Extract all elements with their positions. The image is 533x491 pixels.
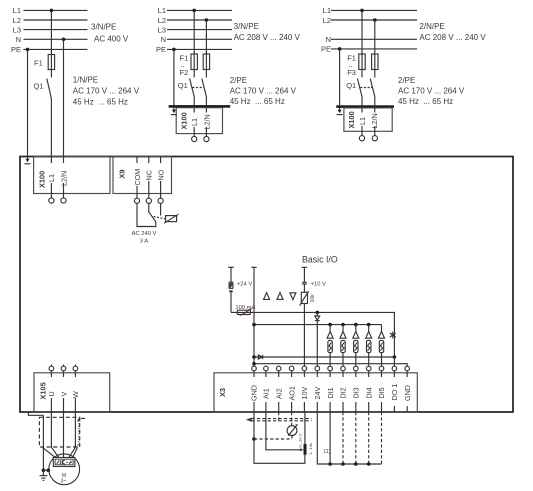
terminal circle X100 main L2/N: [61, 198, 66, 203]
wire L1 to fuse F1: [50, 10, 52, 54]
svg-text:1/N/PE: 1/N/PE: [73, 76, 98, 85]
wire +10V to pot symbol: [303, 284, 305, 292]
junction line A at 24V diode: [316, 311, 320, 315]
wire F1 to Q1 mid: [193, 70, 195, 78]
wire F2 to Q1 mid: [205, 70, 207, 78]
wire PE rail left: [24, 48, 88, 50]
wire L3 rail left: [24, 29, 88, 31]
wire line D GND2 bus: [254, 364, 407, 367]
wire NC down: [148, 203, 150, 211]
wire NO down: [160, 203, 162, 215]
footnote asterisk DI5: [390, 332, 396, 339]
terminal circle NC: [146, 198, 151, 203]
svg-text:DI1: DI1: [326, 387, 335, 398]
shield ground dotted link: [75, 422, 79, 446]
X3 pin stubs inside upper: [254, 373, 407, 377]
wire PE down to chassis: [27, 49, 29, 159]
svg-text:X100: X100: [38, 171, 47, 188]
cable gland cone right: [73, 447, 78, 457]
wire DI1 down: [329, 412, 331, 464]
svg-text:X100: X100: [347, 111, 356, 128]
wire line C DO1 return: [254, 356, 394, 358]
svg-text:F2: F2: [180, 68, 189, 77]
terminal circle V: [61, 366, 66, 371]
svg-text:AC 170 V ... 264 V: AC 170 V ... 264 V: [230, 86, 297, 95]
X100 mid pin L1 stubs: [193, 108, 195, 113]
switch Q1 coupler right: [360, 87, 372, 89]
terminal circle AI2: [276, 366, 281, 371]
svg-text:L2/N: L2/N: [202, 114, 211, 129]
node +24V rail stub: [228, 266, 234, 268]
junction PE drop right: [338, 47, 342, 51]
terminal circle COM: [134, 198, 139, 203]
svg-text:L2: L2: [13, 16, 21, 25]
wire PE down mid: [173, 49, 175, 109]
opto input DI3: [353, 325, 359, 367]
svg-text:L1: L1: [47, 174, 56, 182]
terminal circle X100 main L1: [49, 198, 54, 203]
svg-text:45 Hz ... 65 Hz: 45 Hz ... 65 Hz: [230, 97, 285, 106]
svg-text:L2: L2: [323, 16, 331, 25]
dashed wire AI2 stub: [278, 412, 280, 421]
node +10V rail stub: [302, 266, 308, 268]
wire L2 to fuse right: [374, 20, 376, 54]
junction PE at motor: [42, 468, 46, 472]
fuse F1 (right block): [359, 54, 365, 70]
svg-text:+10 V: +10 V: [311, 282, 326, 288]
svg-text:L1: L1: [358, 117, 367, 125]
svg-text:W: W: [71, 391, 80, 398]
cable gland cone left: [42, 447, 55, 457]
svg-text:L2: L2: [158, 16, 166, 25]
motor cable V: [63, 412, 65, 458]
wire L2 to fuse F2 mid: [205, 20, 207, 54]
svg-text:3~: 3~: [61, 479, 67, 485]
drive enclosure box: [20, 157, 513, 413]
junction DI4 bus: [367, 462, 371, 466]
svg-text:Q1: Q1: [34, 82, 44, 91]
wire Q1 to X100 L1: [50, 99, 52, 157]
terminal circle DI1: [328, 366, 333, 371]
PE link from enclosure to motor cable: [28, 412, 43, 415]
relay actuation dashed link: [154, 217, 166, 219]
junction L1 drop right: [360, 9, 364, 13]
terminal circle DI4: [366, 366, 371, 371]
wire line B DI pullup bus: [254, 324, 382, 326]
diode to 24V terminal: [316, 312, 318, 316]
terminal circle DI3: [354, 366, 359, 371]
svg-text:45 Hz ... 65 Hz: 45 Hz ... 65 Hz: [398, 97, 453, 106]
junction B at GND rail: [252, 323, 256, 327]
svg-text:24V: 24V: [313, 387, 322, 400]
opto input DI4: [366, 325, 372, 367]
terminal block X3: [214, 373, 417, 412]
junction B DI1: [328, 323, 332, 327]
svg-text:45 Hz ... 65 Hz: 45 Hz ... 65 Hz: [73, 97, 128, 106]
amplifier AI1 triangle: [264, 293, 270, 300]
svg-text:1...10k: 1...10k: [308, 443, 313, 455]
terminal block X100 right: [344, 108, 392, 131]
wire COM down: [137, 203, 156, 226]
svg-text:L2/N: L2/N: [59, 171, 68, 186]
junction C at GND rail: [252, 355, 256, 359]
motor cable W: [74, 412, 76, 447]
svg-text:11): 11): [323, 449, 330, 455]
terminal circle L2/N mid: [204, 136, 209, 141]
svg-text:L1: L1: [190, 118, 199, 126]
terminal circle AI1: [264, 366, 269, 371]
terminal circle DI2: [341, 366, 346, 371]
svg-text:X9: X9: [118, 169, 127, 178]
wire GND rail down to terminal: [253, 267, 255, 366]
wire 24V down to switch bus: [317, 412, 381, 464]
svg-text:X3: X3: [218, 388, 227, 397]
wire Q1 to X100 L2N mid: [205, 97, 207, 106]
svg-text:3/N/PE: 3/N/PE: [91, 23, 116, 32]
wire F3 to Q1 right: [374, 70, 376, 78]
junction B DI4: [367, 323, 371, 327]
analog pair dashed line a: [252, 418, 312, 420]
fuse F1 (mid block): [191, 54, 197, 70]
wire Q1 to X100 L1 mid: [193, 97, 195, 106]
terminal circle U: [49, 366, 54, 371]
junction GND meter tap: [252, 437, 256, 441]
terminal circle 10V: [302, 366, 307, 371]
svg-text:L1: L1: [13, 6, 21, 15]
svg-text:Q1: Q1: [346, 81, 356, 90]
svg-text:DI5: DI5: [377, 387, 386, 398]
fuse F3 (right block): [372, 54, 378, 70]
svg-text:L1: L1: [158, 6, 166, 15]
dashed wire DI2 down: [342, 412, 344, 464]
svg-text:NC: NC: [145, 170, 154, 180]
svg-text:100 mA: 100 mA: [235, 305, 255, 311]
opto input DI5: [379, 325, 385, 367]
svg-text:2/N/PE: 2/N/PE: [419, 22, 444, 31]
terminal circle DI5: [379, 366, 384, 371]
wire AI1 to pot wiper: [266, 412, 301, 450]
svg-text:AC 240 V: AC 240 V: [132, 231, 157, 237]
X100 right pin L2/N stubs: [374, 108, 376, 113]
svg-text:NO: NO: [156, 169, 165, 180]
chassis bar right block: [336, 105, 394, 108]
amplifier AI2 triangle: [277, 293, 283, 300]
svg-text:X100: X100: [180, 112, 189, 129]
X3 pin stubs inside lower: [254, 402, 407, 412]
terminal circle DO1: [392, 366, 397, 371]
svg-text:DI4: DI4: [364, 387, 373, 398]
svg-text:L1: L1: [323, 6, 331, 15]
dashed wire AO1 to meter: [291, 412, 293, 426]
junction B DI3: [354, 323, 358, 327]
PE conductor to motor: [42, 415, 44, 470]
wire pot to 10V terminal: [303, 304, 305, 367]
reference potentiometer symbol 10k: [301, 292, 307, 303]
junction L1 drop: [50, 9, 54, 13]
terminal circle AO1: [289, 366, 294, 371]
analog pair dashed line b: [252, 420, 312, 422]
switch Q1 coupler mid: [193, 87, 205, 89]
X9 pin COM stubs: [136, 157, 138, 164]
motor M1 circle: [49, 454, 80, 485]
X9 pin NO stubs: [160, 157, 162, 164]
wire N down to X100: [63, 39, 65, 156]
dashed wire DI5 down: [381, 412, 383, 464]
signal lamp symbol: [166, 216, 177, 222]
switch Q1 (left block): [47, 79, 52, 99]
svg-text:2/PE: 2/PE: [398, 76, 415, 85]
wire Q1 to X100 right b: [374, 97, 376, 106]
svg-text:0...10 V: 0...10 V: [298, 433, 303, 447]
svg-text:AC 400 V: AC 400 V: [94, 34, 129, 43]
fuse F2 (mid block): [203, 54, 209, 70]
amplifier AO1 triangle: [290, 293, 296, 300]
terminal block X9 relay output: [113, 157, 172, 194]
wire L1 to fuse F1 mid: [193, 10, 195, 54]
relay changeover blade: [148, 211, 155, 222]
wire L1 to fuse right: [361, 10, 363, 54]
svg-text:N: N: [326, 35, 331, 44]
terminal circle NO: [158, 198, 163, 203]
wire GND column to pot bottom: [254, 412, 305, 463]
meter symbol on AO1: [287, 426, 297, 436]
svg-text:AC 170 V ... 264 V: AC 170 V ... 264 V: [398, 86, 465, 95]
X100 main pin L2/N stubs: [63, 157, 65, 164]
svg-text:Q1: Q1: [178, 81, 188, 90]
wire L2 rail right: [331, 19, 417, 21]
X105 pin stubs through box: [51, 371, 75, 377]
opto input DI1: [327, 325, 333, 367]
junction C at DO1 column: [393, 355, 397, 359]
terminal circle 24V: [315, 366, 320, 371]
junction motor frame: [47, 468, 51, 472]
svg-text:AO1: AO1: [287, 386, 296, 400]
node GND rail stub: [251, 266, 257, 268]
wire line A 24V feed: [231, 312, 394, 357]
PE chassis arrow left block: [26, 159, 30, 163]
svg-text:PE: PE: [11, 45, 21, 54]
terminal circle GND: [252, 366, 257, 371]
wire N rail right: [331, 38, 417, 40]
svg-text:DI3: DI3: [352, 387, 361, 398]
svg-text:N: N: [161, 35, 166, 44]
node L1 (left block): [0, 0, 1, 1]
wire DO1 column to terminal: [393, 357, 395, 366]
X100 mid pin L2/N stubs: [205, 108, 207, 113]
svg-text:AC 208 V ... 240 V: AC 208 V ... 240 V: [419, 33, 486, 42]
svg-text:N: N: [16, 35, 21, 44]
dashed wire DI3 down: [355, 412, 357, 464]
junction B DI2: [341, 323, 345, 327]
terminal block X105: [34, 373, 110, 412]
junction DI2 bus: [341, 462, 345, 466]
svg-text:V: V: [59, 392, 68, 397]
svg-text:+24 V: +24 V: [237, 282, 252, 288]
svg-text:U: U: [47, 391, 56, 396]
svg-text:AC 208 V ... 240 V: AC 208 V ... 240 V: [234, 33, 301, 42]
switch Q1 pole2 mid: [202, 79, 207, 97]
supply source +10V symbol: [302, 281, 307, 283]
fuse 100 mA: [237, 310, 250, 314]
svg-text:PE: PE: [321, 45, 331, 54]
potentiometer body: [304, 444, 307, 455]
X100 right pin L1 stubs: [361, 108, 363, 113]
svg-text:DI2: DI2: [339, 387, 348, 398]
X9 pin NC stubs: [148, 157, 150, 164]
wire L3 rail mid: [167, 29, 232, 31]
wire 10V to pot top: [304, 412, 306, 444]
fuse F1 (left block): [48, 55, 54, 70]
ground symbol at motor: [42, 470, 44, 475]
terminal circle W: [73, 366, 78, 371]
analog pair arrow: [246, 418, 252, 422]
dashed wire GND to meter: [254, 438, 292, 440]
switch Q1 pole1 right: [357, 79, 362, 97]
X100 main pin L1 stubs: [50, 157, 52, 164]
svg-text:2/PE: 2/PE: [230, 76, 247, 85]
junction L2 drop mid: [205, 18, 209, 22]
svg-text:AI1: AI1: [262, 388, 271, 399]
X3 pin stubs top: [254, 371, 407, 373]
switch Q1 pole2 right: [370, 79, 375, 97]
wire L1 rail mid: [167, 9, 232, 11]
junction DI3 bus: [354, 462, 358, 466]
svg-text:L3: L3: [13, 25, 21, 34]
wire PE rail right: [331, 48, 417, 50]
wire Q1 to X100 right a: [361, 97, 363, 106]
svg-text:COM: COM: [133, 169, 142, 186]
junction L1 drop mid: [192, 9, 196, 13]
wire L1 rail left: [24, 9, 88, 11]
svg-text:GND: GND: [403, 385, 412, 401]
diode on line C: [258, 355, 262, 359]
junction PE drop mid: [172, 48, 176, 52]
junction DI1 bus: [328, 462, 332, 466]
wire fuse to Q1: [50, 70, 52, 78]
motor terminal box: [53, 458, 75, 467]
junction L2 drop right: [373, 18, 377, 22]
junction D at GND rail: [252, 362, 256, 366]
terminal block X100 main: [34, 157, 110, 194]
junction PE drop: [26, 48, 30, 52]
motor cable U slant: [51, 447, 58, 457]
svg-text:10V: 10V: [300, 387, 309, 400]
wire F1 to Q1 right: [361, 70, 363, 78]
dashed wire DI4 down: [368, 412, 370, 464]
svg-text:AI2: AI2: [274, 388, 283, 399]
terminal block X100 mid: [176, 108, 222, 134]
motor cable U: [50, 412, 52, 447]
svg-text:PE: PE: [156, 45, 166, 54]
wire PE down right: [339, 49, 341, 110]
terminal circle L1 mid: [192, 136, 197, 141]
opto input DI2: [340, 325, 346, 367]
wire +24V source to fuse: [230, 292, 232, 312]
svg-text:L3: L3: [158, 25, 166, 34]
chassis bar mid block: [169, 105, 231, 108]
svg-text:GND: GND: [250, 385, 259, 401]
wire L1 rail right: [331, 9, 417, 11]
PE chassis arrow mid block: [172, 110, 176, 114]
svg-text:L2/N: L2/N: [370, 113, 379, 128]
svg-text:F1: F1: [34, 59, 43, 68]
motor cable W slant: [69, 447, 76, 457]
wire L2 rail left: [24, 19, 88, 21]
svg-text:10k: 10k: [310, 294, 316, 303]
svg-text:DO 1: DO 1: [390, 384, 399, 401]
svg-text:X105: X105: [39, 382, 48, 399]
terminal circle L1 right: [359, 136, 364, 141]
X105 pin stubs above circles: [51, 365, 75, 367]
switch Q1 pole1 mid: [190, 79, 195, 97]
junction N drop: [62, 38, 66, 42]
svg-text:3 A: 3 A: [140, 238, 149, 244]
svg-text:3/N/PE: 3/N/PE: [234, 22, 259, 31]
wire N rail mid: [167, 38, 232, 40]
cable shield dashed box: [39, 417, 79, 447]
wire L2 rail mid: [167, 19, 232, 21]
svg-text:AC 170 V ... 264 V: AC 170 V ... 264 V: [73, 87, 140, 96]
wire N rail left: [24, 38, 88, 40]
supply source +24V symbol: [229, 281, 234, 283]
wire PE to motor frame: [43, 469, 48, 471]
wire PE rail mid: [167, 48, 232, 50]
terminal circle GND2: [405, 366, 410, 371]
PE chassis arrow right block: [338, 110, 342, 114]
svg-text:Basic I/O: Basic I/O: [302, 255, 338, 265]
terminal circle L2/N right: [372, 136, 377, 141]
svg-text:F3: F3: [347, 68, 356, 77]
